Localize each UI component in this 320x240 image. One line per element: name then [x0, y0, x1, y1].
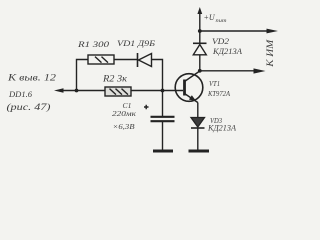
diode VD2 (apex up, cathode bar top) [193, 43, 207, 55]
svg-text:R1 300: R1 300 [77, 40, 110, 49]
wire: emitter down to VD3 [197, 103, 199, 118]
diode VD3 (apex down) [191, 118, 205, 129]
arrow: lower output to ИМ [254, 68, 266, 73]
svg-text:220мк: 220мк [112, 109, 136, 118]
ground (C1) [153, 150, 173, 153]
svg-text:VT1: VT1 [209, 79, 220, 88]
wire: supply node to KIM (upper output) [200, 30, 267, 32]
resistor R2 [105, 87, 131, 96]
input terminal arrow (to pin 12 of DD1.6) [54, 88, 64, 93]
svg-text:R2 3к: R2 3к [102, 75, 128, 85]
svg-text:К выв. 12: К выв. 12 [7, 73, 57, 83]
svg-text:К ИМ: К ИМ [265, 39, 275, 68]
svg-text:VD2: VD2 [212, 37, 229, 46]
power +Uпит arrow [197, 7, 202, 14]
wire: collector node to KIM (lower output) [200, 70, 254, 72]
capacitor C1 (polarized) [144, 91, 175, 150]
wire: input line from terminal to transistor base [62, 90, 183, 92]
wire: collector vertical through VD2 [199, 13, 201, 71]
junction: left node of R1 branch [75, 89, 79, 93]
resistor R1 [88, 55, 114, 64]
junction: collector node [198, 69, 202, 73]
diode VD1 (cathode bar left, triangle pointing left) [138, 53, 152, 67]
ground (emitter) [189, 150, 210, 153]
label +Uпит [204, 13, 227, 24]
svg-text:+U: +U [204, 13, 216, 22]
svg-text:КД213А: КД213А [207, 124, 236, 133]
transistor VT1 [175, 71, 203, 104]
arrow: upper output to ИМ [267, 29, 279, 34]
junction: supply node [198, 29, 202, 33]
wire: VD1 to right riser, down to base node [152, 60, 163, 91]
svg-text:КД213А: КД213А [212, 47, 242, 56]
label C1 220мк ×6,3В [112, 101, 136, 131]
svg-text:×6,3В: ×6,3В [113, 122, 135, 131]
wire: R1 to VD1 [114, 59, 138, 61]
svg-text:(рис. 47): (рис. 47) [7, 102, 51, 112]
wire: left riser of R1 branch [77, 60, 89, 91]
wire: VD3 to ground [197, 128, 199, 150]
junction: base / C1 node [161, 89, 165, 93]
svg-text:DD1.6: DD1.6 [8, 89, 33, 99]
svg-text:VD1 Д9Б: VD1 Д9Б [117, 39, 155, 48]
svg-text:КТ972А: КТ972А [207, 89, 230, 98]
svg-text:пит: пит [216, 18, 227, 24]
